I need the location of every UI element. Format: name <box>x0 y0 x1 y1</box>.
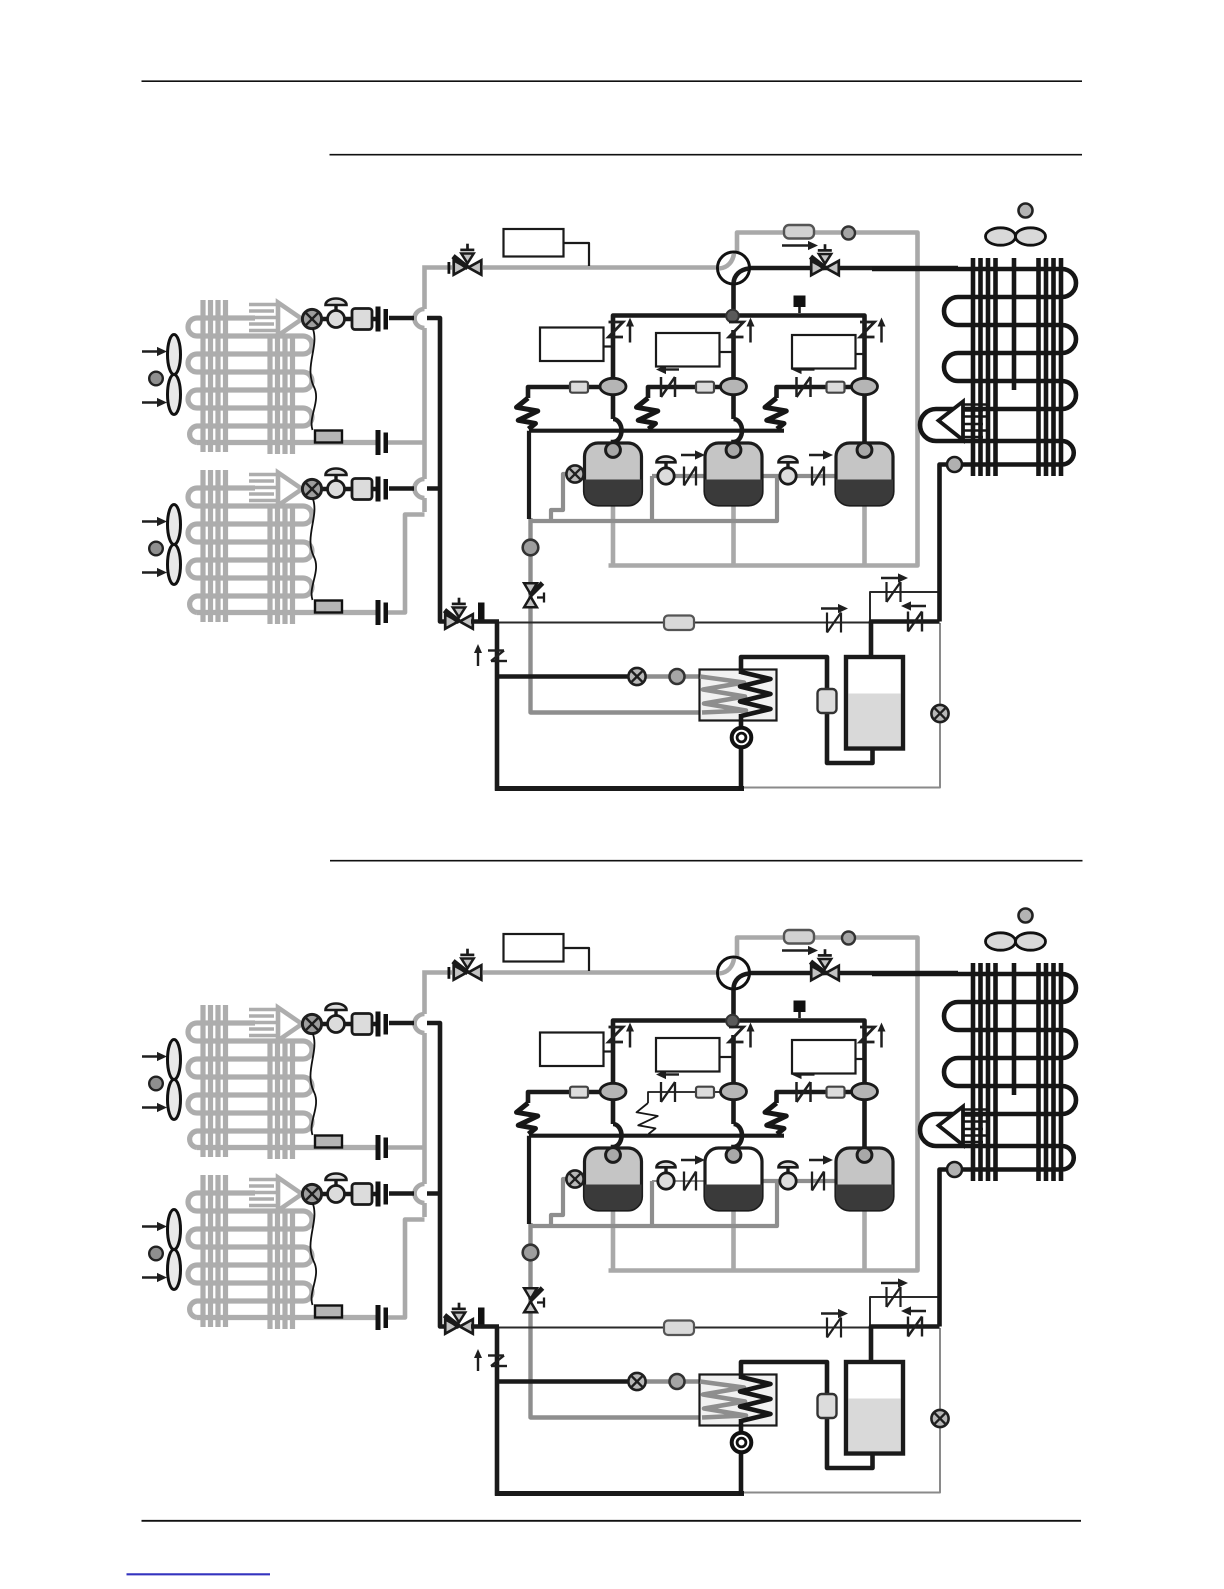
oil line riser to oil valve 1 <box>650 1181 654 1226</box>
suction line service bars EV2 <box>376 1305 381 1330</box>
liquid service line V2 to receiver (thin) <box>486 1327 870 1329</box>
TXV sensing bulb EV1 <box>315 431 342 443</box>
fan EV2 motor dot <box>149 542 163 556</box>
suction gas stub compressor 2 <box>731 1210 736 1271</box>
suction line service bars EV1 <box>376 1135 381 1160</box>
air supply arrow into TXV EV1 (striped) <box>249 1008 281 1012</box>
liquid line to economizer branch <box>497 674 631 679</box>
TXV sensing bulb capillary EV1 <box>310 1034 316 1135</box>
discharge muffler on gas loop <box>784 225 814 239</box>
sensor dot on gas loop <box>842 932 855 945</box>
condenser fin lines right group <box>1036 258 1041 476</box>
TXV thermostatic expansion valve EV1 <box>321 1022 378 1027</box>
liquid solenoid valve on receiver feed <box>818 1394 837 1418</box>
flow arrow under muffler <box>782 949 811 951</box>
suction gas stub compressor 1 <box>611 1210 616 1271</box>
air supply arrow into TXV EV1 (striped) <box>249 303 281 307</box>
economizer junction dot <box>523 1245 539 1261</box>
suction gas stub compressor 2 <box>731 505 736 566</box>
evaporator EV1 vertical fin lines right group <box>267 1040 272 1159</box>
condenser sensor stub <box>798 1011 801 1018</box>
evaporator 2 liquid branch <box>389 1191 440 1196</box>
oil shut-off valve 1 (between compressor 1 and 2) <box>664 1167 667 1175</box>
compressor 2 scroll vessel <box>705 1148 762 1210</box>
hot gas pipe 4-way valve to condenser <box>749 971 958 976</box>
expansion device (double circle) <box>732 1433 752 1453</box>
bottom return pipe <box>495 1491 744 1496</box>
condenser fan blades <box>986 933 1016 950</box>
check valve on branch compressor 2 <box>660 377 663 397</box>
sight glass on liquid line <box>628 1373 645 1390</box>
filter strainer EV1 <box>352 309 372 330</box>
evaporator EV2 vertical fin lines left group <box>200 1175 205 1327</box>
condenser airflow arrow (striped, pointing left) <box>963 403 990 406</box>
heat exchanger feed pipe (top) <box>741 1362 873 1468</box>
flow arrow left on receiver inlet <box>908 605 926 607</box>
liquid solenoid valve on receiver feed <box>818 689 837 713</box>
oil line compressor2-compressor3 <box>762 474 835 478</box>
compressor 1 scroll vessel <box>585 1148 642 1210</box>
compressor 3 scroll vessel <box>836 1148 893 1210</box>
condenser fan motor dot <box>1019 909 1033 923</box>
label box B4 connector wire <box>856 1058 865 1060</box>
economizer heat exchanger shell <box>700 670 777 721</box>
suction header left drop to economizer line <box>527 1136 531 1224</box>
oil check valve 1 <box>683 467 685 486</box>
compressor 2 suction port <box>726 443 741 458</box>
oil check valve 2 <box>811 1172 813 1191</box>
expansion device (double circle) <box>732 728 752 748</box>
check valve on liquid drop (arrow up) <box>477 649 479 666</box>
3-way valve V3 (discharge to condenser) <box>811 244 839 275</box>
compressor 3 suction port <box>857 443 872 458</box>
economizer junction dot <box>523 540 539 556</box>
liquid line into economizer heat exchanger (gray segment) <box>645 1379 702 1384</box>
oil check valve 1 <box>683 1172 685 1191</box>
flow arrow (left) branch compressor 2 <box>663 368 679 370</box>
fan EV1 blade ellipses <box>168 335 181 375</box>
service stub bar near V2 <box>478 603 485 622</box>
liquid line shut-off valve EV2 <box>334 475 337 483</box>
evaporator EV1 vertical fin lines left group <box>200 300 205 452</box>
oil line compressor2-compressor3 <box>762 1179 835 1183</box>
liquid receiver vessel <box>846 657 903 749</box>
compressor 2 suction branch <box>648 387 721 398</box>
suction gas pipe: top loop from 4-way valve to compressor shells <box>609 938 918 1271</box>
evaporator EV2 bottom row to suction <box>197 610 376 615</box>
oil sight line compressor 1 <box>551 474 574 521</box>
3-way valve V3 (discharge to condenser) <box>811 949 839 980</box>
flow arrow (left) branch compressor 2 <box>663 1073 679 1075</box>
suction line service bars EV1 <box>376 430 381 455</box>
crossover hop 1 on suction riser <box>415 309 425 328</box>
TXV thermostatic expansion valve EV2 <box>321 1192 378 1197</box>
discharge muffler/check oval compressor 3 <box>852 378 878 394</box>
check valve on branch compressor 3 <box>795 1082 798 1102</box>
branch shut-off square compressor 2 <box>696 1087 714 1098</box>
compressor 3 scroll vessel <box>836 443 893 505</box>
discharge muffler/check oval compressor 2 <box>721 1083 747 1099</box>
charge sight glass right <box>931 1410 948 1427</box>
refrigeration circuit diagram 2 <box>142 909 1076 1496</box>
TXV sensing bulb capillary EV1 <box>310 329 316 430</box>
liquid line service bars EV2 <box>376 1182 381 1207</box>
moisture indicator dot <box>670 1374 685 1389</box>
filter strainer EV2 <box>352 479 372 500</box>
evaporator coil EV2 serpentine <box>188 488 312 613</box>
control label box B2 compressor <box>540 328 604 362</box>
V2 to liquid drop junction <box>471 1324 499 1329</box>
compressor 1 discharge drop pipe <box>613 1035 622 1151</box>
liquid line shut-off valve EV1 <box>334 1010 337 1018</box>
4-way valve feed pipe <box>731 988 736 1021</box>
suction gas stub compressor 3 <box>862 1210 867 1271</box>
evaporator coil EV1 serpentine <box>188 318 312 443</box>
economizer expansion valve V4 <box>524 583 544 607</box>
suction line evaporator 1 into riser <box>388 440 425 445</box>
discharge muffler on gas loop <box>784 930 814 944</box>
oil equalisation line below compressors <box>530 478 777 521</box>
oil line riser to oil valve 1 <box>650 476 654 521</box>
compressor 3 suction branch <box>777 1092 852 1103</box>
check valve on liquid service line <box>826 613 828 633</box>
condenser liquid outlet pipe down <box>940 1170 948 1327</box>
suction gas pipe: top loop from 4-way valve to compressor shells <box>609 233 918 566</box>
liquid line service bars EV2 <box>376 477 381 502</box>
section rule above diagram 1 <box>330 154 1083 156</box>
bypass flow arrow right <box>881 577 901 579</box>
condenser coil serpentine <box>872 974 1076 1170</box>
condenser fin lines left group <box>971 258 976 476</box>
fan EV2 blade ellipses <box>168 505 181 545</box>
discharge muffler/check oval compressor 1 <box>600 378 626 394</box>
top horizontal rule <box>142 80 1083 82</box>
airflow arrow EV1 upper <box>142 1055 160 1057</box>
oil flow arrow 1 <box>681 454 698 456</box>
bypass check valve (thin top line) <box>885 1287 887 1307</box>
branch shut-off square compressor 3 <box>827 382 845 393</box>
TXV sensing bulb EV2 <box>315 1306 342 1318</box>
sight glass on liquid line <box>628 668 645 685</box>
receiver bypass loop (thin) <box>870 1297 940 1328</box>
moisture indicator dot <box>670 669 685 684</box>
heat exchanger black coil <box>740 1377 771 1421</box>
flow arrow left on receiver inlet <box>908 1310 926 1312</box>
heat exchanger gray coil <box>700 677 746 713</box>
compressor 1 discharge drop pipe <box>613 330 622 446</box>
fan EV1 motor dot <box>149 1077 163 1091</box>
compressor 3 discharge drop pipe <box>862 1035 867 1151</box>
compressor 3 suction branch <box>777 387 852 398</box>
liquid drop pipe with check valve <box>495 1327 500 1496</box>
control label box B1 (top) <box>504 934 564 962</box>
pressure relief valve compressor 2 <box>729 322 744 337</box>
TXV sensing bulb EV1 <box>315 1136 342 1148</box>
evaporator coil EV2 serpentine <box>188 1193 312 1318</box>
oil shut-off valve 2 (between compressor 2 and 3) <box>786 1167 789 1175</box>
branch shut-off square compressor 1 <box>570 1087 588 1098</box>
oil line compressor1-compressor2 <box>652 474 707 478</box>
liquid drop pipe with check valve <box>495 622 500 791</box>
oil flow arrow 1 <box>681 1159 698 1161</box>
label box B1 connector wire <box>564 243 590 266</box>
3-way valve V2 (liquid service) <box>445 598 473 629</box>
heat exchanger outlet to pump <box>739 714 744 790</box>
suction gas stub compressor 3 <box>862 505 867 566</box>
heat exchanger black coil <box>740 672 771 716</box>
condenser fan motor dot <box>1019 204 1033 218</box>
condenser fin line short <box>1012 963 1017 1095</box>
suction line evaporator 1 into riser <box>388 1145 425 1150</box>
discharge junction node <box>726 310 739 323</box>
footnote underline (blue) <box>127 1573 271 1575</box>
heat exchanger outlet to pump <box>739 1419 744 1495</box>
check valve on receiver inlet <box>907 1317 909 1337</box>
air supply arrow into TXV EV2 (striped) <box>249 473 281 477</box>
bottom horizontal rule <box>142 1520 1082 1522</box>
pressure relief valve compressor 3 <box>860 1027 875 1042</box>
discharge junction node <box>726 1015 739 1028</box>
label box B3 connector wire <box>720 351 734 353</box>
flow arrow right on liquid service line <box>821 607 841 609</box>
flow arrow (left) branch compressor 3 <box>799 368 815 370</box>
control label box B4 compressor <box>792 335 856 369</box>
label box B2 connector wire <box>604 345 614 347</box>
condenser sensor stub <box>798 306 801 313</box>
airflow arrow EV2 lower <box>142 1276 160 1278</box>
flow arrow (left) branch compressor 3 <box>799 1073 815 1075</box>
condenser liquid outlet pipe down <box>940 465 948 622</box>
condenser fin lines right group <box>1036 963 1041 1181</box>
oil flow arrow 2 <box>809 1159 826 1161</box>
pressure relief valve compressor 2 <box>729 1027 744 1042</box>
flow arrow right on liquid service line <box>821 1312 841 1314</box>
4-way reversing valve <box>718 252 750 284</box>
suction header left drop to economizer line <box>527 431 531 519</box>
airflow arrow EV1 upper <box>142 350 160 352</box>
receiver inlet pipe <box>871 622 940 660</box>
3-way valve V1 (suction) <box>453 244 481 275</box>
check valve on branch compressor 3 <box>795 377 798 397</box>
suction header <box>529 1134 784 1138</box>
evaporator 2 liquid branch <box>389 486 440 491</box>
economizer line: suction header end down to heat exchanger <box>531 518 701 713</box>
branch shut-off square compressor 1 <box>570 382 588 393</box>
control label box B1 (top) <box>504 229 564 257</box>
oil level sight glass compressor 1 <box>566 465 583 482</box>
heat exchanger gray coil <box>700 1382 746 1418</box>
receiver bypass loop (thin) <box>870 592 940 623</box>
control label box B3 compressor <box>656 1038 720 1072</box>
crossover hop 2 on suction riser <box>415 1184 425 1203</box>
bypass check valve (thin top line) <box>885 582 887 602</box>
condenser fin lines left group <box>971 963 976 1181</box>
charge sight glass right <box>931 705 948 722</box>
oil level sight glass compressor 1 <box>566 1170 583 1187</box>
4-way reversing valve <box>718 957 750 989</box>
label box B1 connector wire <box>564 948 590 971</box>
TXV sensing bulb EV2 <box>315 601 342 613</box>
branch shut-off square compressor 2 <box>696 382 714 393</box>
airflow arrow EV1 lower <box>142 401 160 403</box>
compressor 1 suction branch <box>528 1092 600 1103</box>
fan EV2 blade ellipses <box>168 1210 181 1250</box>
oil line compressor1-compressor2 <box>652 1180 707 1182</box>
liquid line into economizer heat exchanger (gray segment) <box>645 674 702 679</box>
fan EV1 blade ellipses <box>168 1040 181 1080</box>
compressor 1 suction branch <box>528 387 600 398</box>
TXV sensing bulb capillary EV2 <box>310 1204 316 1305</box>
compressor 2 suction port <box>726 1148 741 1163</box>
filter strainer EV1 <box>352 1014 372 1035</box>
bottom return line right (thin) <box>742 1328 940 1493</box>
evaporator EV2 bottom row to suction <box>197 1315 376 1320</box>
evaporator EV1 bottom row to suction <box>197 440 376 445</box>
control label box B3 compressor <box>656 333 720 367</box>
discharge header <box>613 316 865 331</box>
oil flow arrow 2 <box>809 454 826 456</box>
heat exchanger feed pipe (top) <box>741 657 873 763</box>
condenser outlet junction dot <box>947 457 962 472</box>
filter strainer EV2 <box>352 1184 372 1205</box>
section rule above diagram 2 <box>330 860 1083 862</box>
airflow arrow EV2 upper <box>142 1225 160 1227</box>
liquid line to economizer branch <box>497 1379 631 1384</box>
evaporator EV2 vertical fin lines right group <box>267 505 272 624</box>
airflow arrow EV2 lower <box>142 571 160 573</box>
pressure relief valve compressor 1 <box>609 1027 624 1042</box>
compressor 3 suction port <box>857 1148 872 1163</box>
oil shut-off valve 2 (between compressor 2 and 3) <box>786 462 789 470</box>
condenser fin line short <box>1012 258 1017 390</box>
compressor 2 discharge drop pipe <box>734 330 743 446</box>
sensor dot on gas loop <box>842 227 855 240</box>
condenser airflow arrow (striped, pointing left) <box>963 1108 990 1111</box>
compressor 3 discharge drop pipe <box>862 330 867 446</box>
label box B4 connector wire <box>856 353 865 355</box>
discharge muffler/check oval compressor 3 <box>852 1083 878 1099</box>
fan EV2 motor dot <box>149 1247 163 1261</box>
condenser outlet junction dot <box>947 1162 962 1177</box>
suction riser pipe left (evaporators to 3-way valve V1) with crossover hops <box>425 268 453 513</box>
suction pipe V1 to 4-way valve <box>483 265 719 270</box>
check valve on receiver inlet <box>907 612 909 632</box>
flow arrow under muffler <box>782 244 811 246</box>
hot gas pipe 4-way valve to condenser <box>749 266 958 271</box>
branch shut-off square compressor 3 <box>827 1087 845 1098</box>
condenser fan blades <box>986 228 1016 245</box>
receiver inlet pipe <box>871 1327 940 1365</box>
V2 to liquid drop junction <box>471 619 499 624</box>
4-way valve feed pipe <box>731 283 736 316</box>
label box B2 connector wire <box>604 1050 614 1052</box>
evaporator EV1 bottom row to suction <box>197 1145 376 1150</box>
refrigeration circuit diagram 1 <box>142 204 1076 791</box>
liquid collector pipe from evaporators (vertical) <box>427 1023 445 1327</box>
TXV sensing bulb capillary EV2 <box>310 499 316 600</box>
liquid line service bars EV1 <box>376 1012 381 1037</box>
crossover hop 1 on suction riser <box>415 1014 425 1033</box>
liquid line shut-off valve EV2 <box>334 1180 337 1188</box>
3-way valve V2 (liquid service) <box>445 1303 473 1334</box>
discharge muffler/check oval compressor 2 <box>721 378 747 394</box>
oil sight line compressor 1 <box>551 1179 574 1226</box>
check valve on liquid drop (arrow up) <box>477 1354 479 1371</box>
compressor 2 discharge drop pipe <box>734 1035 743 1151</box>
filter drier on liquid service line <box>664 1321 694 1336</box>
pressure relief valve compressor 3 <box>860 322 875 337</box>
check valve on liquid service line <box>826 1318 828 1338</box>
oil check valve 2 <box>811 467 813 486</box>
oil equalisation line below compressors <box>530 1183 777 1226</box>
economizer line: suction header end down to heat exchanger <box>531 1223 701 1418</box>
liquid collector pipe from evaporators (vertical) <box>427 318 445 622</box>
suction riser pipe left (evaporators to 3-way valve V1) with crossover hops <box>425 973 453 1218</box>
service tick before V1 <box>448 967 451 979</box>
service tick before V1 <box>448 262 451 274</box>
compressor 1 scroll vessel <box>585 443 642 505</box>
compressor 2 scroll vessel <box>705 443 762 505</box>
liquid service line V2 to receiver (thin) <box>486 622 870 624</box>
evaporator EV1 vertical fin lines left group <box>200 1005 205 1157</box>
TXV thermostatic expansion valve EV2 <box>321 487 378 492</box>
oil shut-off valve 1 (between compressor 1 and 2) <box>664 462 667 470</box>
liquid line service bars EV1 <box>376 307 381 332</box>
3-way valve V1 (suction) <box>453 949 481 980</box>
economizer heat exchanger shell <box>700 1375 777 1426</box>
bottom return line right (thin) <box>742 623 940 788</box>
control label box B4 compressor <box>792 1040 856 1074</box>
pressure relief valve compressor 1 <box>609 322 624 337</box>
bypass flow arrow right <box>881 1282 901 1284</box>
evaporator coil EV1 serpentine <box>188 1023 312 1148</box>
compressor 1 suction port <box>606 1148 621 1163</box>
evaporator EV2 vertical fin lines right group <box>267 1210 272 1329</box>
check valve on branch compressor 2 <box>660 1082 662 1102</box>
crossover hop 2 on suction riser <box>415 479 425 498</box>
evaporator 1 liquid branch <box>389 1021 414 1026</box>
evaporator EV2 vertical fin lines left group <box>200 470 205 622</box>
suction line evaporator 2 riser jog <box>388 1220 425 1318</box>
control label box B2 compressor <box>540 1033 604 1067</box>
filter drier on liquid service line <box>664 616 694 631</box>
fan EV1 motor dot <box>149 372 163 386</box>
suction gas stub compressor 1 <box>611 505 616 566</box>
evaporator EV1 vertical fin lines right group <box>267 335 272 454</box>
evaporator 1 liquid branch <box>389 316 414 321</box>
suction line evaporator 2 riser jog <box>388 515 425 613</box>
suction line service bars EV2 <box>376 600 381 625</box>
air supply arrow into TXV EV2 (striped) <box>249 1178 281 1182</box>
discharge header <box>613 1021 865 1036</box>
condenser coil serpentine <box>872 269 1076 465</box>
compressor 1 suction port <box>606 443 621 458</box>
service stub bar near V2 <box>478 1308 485 1327</box>
TXV thermostatic expansion valve EV1 <box>321 317 378 322</box>
airflow arrow EV2 upper <box>142 520 160 522</box>
compressor 2 suction branch <box>648 1092 721 1103</box>
suction pipe V1 to 4-way valve <box>483 970 719 975</box>
liquid line shut-off valve EV1 <box>334 305 337 313</box>
label box B3 connector wire <box>720 1056 734 1058</box>
discharge muffler/check oval compressor 1 <box>600 1083 626 1099</box>
airflow arrow EV1 lower <box>142 1106 160 1108</box>
economizer expansion valve V4 <box>524 1288 544 1312</box>
bottom return pipe <box>495 786 744 791</box>
liquid receiver vessel <box>846 1362 903 1454</box>
suction header <box>529 429 784 433</box>
